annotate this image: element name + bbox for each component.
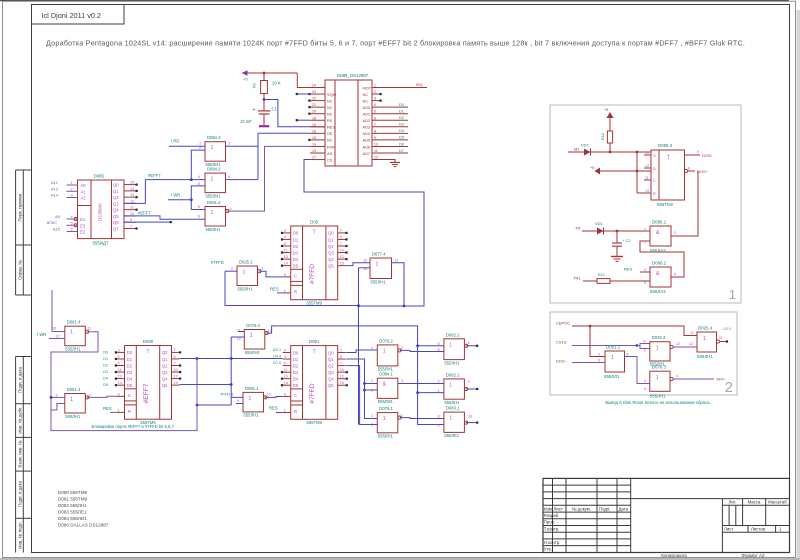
svg-text:#7FFD: #7FFD (309, 383, 316, 403)
svg-text:D091: D091 (309, 339, 320, 344)
svg-text:Q0: Q0 (328, 231, 334, 236)
svg-text:D084.2: D084.2 (207, 167, 221, 172)
svg-text:10: 10 (174, 368, 178, 372)
svg-text:A2: A2 (81, 196, 87, 201)
svg-text:2: 2 (199, 146, 201, 150)
svg-text:21: 21 (312, 103, 316, 107)
svg-text:1: 1 (371, 414, 373, 418)
svg-text:4: 4 (598, 353, 600, 357)
svg-text:D081.1: D081.1 (245, 386, 259, 391)
svg-text:6: 6 (644, 387, 646, 391)
svg-text:D076.4: D076.4 (246, 323, 260, 328)
svg-text:1: 1 (729, 287, 736, 302)
svg-text:A0: A0 (81, 183, 87, 188)
svg-text:11: 11 (130, 206, 134, 210)
svg-text:D1: D1 (293, 237, 299, 242)
svg-text:3: 3 (228, 142, 230, 146)
svg-text:D5: D5 (127, 383, 133, 388)
svg-text:1: 1 (371, 346, 373, 350)
svg-text:14: 14 (130, 187, 134, 191)
svg-text:/ RD: / RD (171, 139, 179, 144)
svg-text:NC: NC (327, 112, 333, 117)
svg-text:23: 23 (312, 90, 316, 94)
svg-text:AS: AS (327, 151, 333, 156)
svg-text:1: 1 (449, 416, 452, 422)
svg-text:AD6: AD6 (363, 144, 371, 149)
svg-text:Q1: Q1 (162, 357, 168, 362)
svg-text:R: R (294, 289, 297, 294)
svg-text:24: 24 (312, 84, 316, 88)
svg-text:2: 2 (371, 423, 373, 427)
svg-text:S: S (653, 153, 656, 158)
svg-text:AD0: AD0 (363, 105, 371, 110)
svg-text:13: 13 (645, 189, 649, 193)
svg-text:1: 1 (243, 270, 246, 276)
svg-text:D1: D1 (103, 357, 108, 361)
svg-text:Q0: Q0 (113, 183, 119, 188)
svg-text:12: 12 (363, 259, 367, 263)
svg-text:NC: NC (327, 98, 333, 103)
svg-text:D081 555ТМ9: D081 555ТМ9 (58, 497, 88, 502)
svg-text:D081.2: D081.2 (207, 200, 221, 205)
svg-text:D082 555ЛН1: D082 555ЛН1 (58, 503, 87, 508)
svg-text:7: 7 (374, 123, 376, 127)
svg-text:6: 6 (438, 348, 440, 352)
svg-text:12: 12 (174, 374, 178, 378)
svg-text:D081.3: D081.3 (67, 387, 81, 392)
svg-text:Q3: Q3 (328, 370, 334, 375)
svg-text:10: 10 (267, 393, 271, 397)
svg-text:RES: RES (327, 125, 335, 130)
svg-text:555ЛЕ1: 555ЛЕ1 (444, 433, 460, 438)
svg-text:Q0: Q0 (328, 350, 334, 355)
svg-text:1: 1 (284, 409, 286, 413)
svg-text:Q7: Q7 (113, 226, 119, 231)
svg-text:9: 9 (284, 392, 286, 396)
svg-text:4: 4 (468, 341, 470, 345)
svg-text:Справ. №: Справ. № (18, 260, 23, 280)
svg-text:A15: A15 (53, 227, 61, 232)
svg-text:Q1: Q1 (113, 189, 119, 194)
svg-text:12: 12 (340, 375, 344, 379)
svg-text:Подп. и дата: Подп. и дата (18, 481, 23, 507)
svg-text:+ C2: + C2 (623, 239, 631, 243)
svg-text:3: 3 (118, 348, 120, 352)
svg-text:3: 3 (401, 379, 403, 383)
svg-text:1: 1 (374, 84, 376, 88)
svg-text:15: 15 (174, 381, 178, 385)
svg-text:1: 1 (376, 262, 379, 268)
svg-text:D3: D3 (103, 370, 108, 374)
svg-text:10 K: 10 K (272, 81, 281, 86)
svg-text:D0: D0 (399, 103, 404, 107)
svg-text:Разраб.: Разраб. (544, 513, 559, 518)
svg-text:C: C (128, 393, 131, 398)
svg-text:4: 4 (644, 268, 646, 272)
svg-text:10 mF: 10 mF (240, 119, 252, 124)
svg-text:10: 10 (340, 248, 344, 252)
svg-text:1: 1 (211, 145, 214, 151)
svg-text:1: 1 (284, 289, 286, 293)
svg-text:1: 1 (656, 375, 659, 381)
svg-text:D4: D4 (293, 377, 299, 382)
svg-text:D2: D2 (293, 363, 299, 368)
svg-text:555ЛН1: 555ЛН1 (444, 400, 460, 405)
svg-text:D7: D7 (399, 149, 404, 153)
svg-text:6: 6 (284, 362, 286, 366)
svg-text:D1: D1 (399, 110, 404, 114)
svg-text:4: 4 (230, 207, 232, 211)
svg-text:D080 555ТМ9: D080 555ТМ9 (58, 490, 88, 495)
svg-text:OE: OE (327, 131, 333, 136)
svg-text:555ЛН1: 555ЛН1 (238, 286, 254, 291)
svg-text:Лист: Лист (724, 526, 733, 531)
svg-text:Q2: Q2 (328, 244, 334, 249)
svg-text:D2: D2 (103, 364, 108, 368)
svg-text:Взам. инв. №: Взам. инв. № (18, 440, 23, 467)
svg-text:5: 5 (374, 110, 376, 114)
svg-text:555ЛН1: 555ЛН1 (444, 360, 460, 365)
svg-text:D086.2: D086.2 (652, 261, 667, 266)
svg-text:10: 10 (130, 212, 134, 216)
svg-text:RES: RES (269, 406, 278, 411)
svg-text:9: 9 (237, 399, 239, 403)
svg-text:2: 2 (340, 348, 342, 352)
svg-text:NC: NC (327, 105, 333, 110)
svg-text:Доработка Pentagona 1024SL v14: Доработка Pentagona 1024SL v14: расширен… (46, 39, 745, 48)
svg-text:555ТМ9: 555ТМ9 (307, 301, 323, 306)
svg-text:Лит.: Лит. (729, 499, 737, 504)
svg-text:MOT: MOT (363, 85, 372, 90)
svg-text:D3: D3 (127, 370, 133, 375)
svg-text:555ТМ9: 555ТМ9 (307, 420, 323, 425)
svg-text:12: 12 (237, 337, 241, 341)
svg-text:#EFF7: #EFF7 (148, 173, 161, 178)
svg-text:5: 5 (598, 359, 600, 363)
svg-text:10: 10 (340, 368, 344, 372)
svg-text:AD1: AD1 (363, 112, 371, 117)
svg-text:/ WR: / WR (171, 192, 180, 197)
svg-text:Вывод 6 Gluk Reset Service не: Вывод 6 Gluk Reset Service не использова… (605, 400, 710, 405)
svg-text:2: 2 (725, 379, 733, 396)
svg-text:5: 5 (71, 221, 73, 225)
svg-text:R: R (653, 191, 656, 196)
svg-text:Q5: Q5 (162, 383, 168, 388)
svg-text:6: 6 (374, 116, 376, 120)
svg-text:DC/BMX: DC/BMX (97, 203, 102, 221)
svg-text:10: 10 (374, 142, 378, 146)
svg-text:3: 3 (674, 231, 676, 235)
svg-text:C: C (294, 393, 297, 398)
svg-text:1: 1 (449, 342, 452, 348)
svg-text:A13: A13 (51, 187, 59, 192)
svg-text:Q0: Q0 (162, 350, 168, 355)
svg-text:555ЛИ1: 555ЛИ1 (378, 399, 394, 404)
svg-text:C: C (653, 178, 656, 183)
svg-text:D086.1: D086.1 (652, 220, 667, 225)
svg-text:555ЛН1: 555ЛН1 (206, 227, 222, 232)
svg-text:10: 10 (52, 326, 56, 330)
svg-text:D086_DS12887: D086_DS12887 (337, 73, 369, 78)
svg-text:OFF~: OFF~ (716, 377, 727, 382)
svg-text:Q5: Q5 (113, 214, 119, 219)
svg-text:+5: +5 (590, 166, 594, 170)
svg-text:11: 11 (395, 259, 399, 263)
svg-text:D5: D5 (293, 383, 299, 388)
svg-text:12: 12 (130, 199, 134, 203)
svg-text:D025.1: D025.1 (239, 260, 253, 265)
svg-text:13: 13 (312, 149, 316, 153)
svg-text:7: 7 (340, 361, 342, 365)
svg-text:RES: RES (103, 406, 112, 411)
svg-text:C1: C1 (272, 107, 278, 112)
svg-text:Q4: Q4 (328, 377, 334, 382)
svg-text:5: 5 (198, 205, 200, 209)
svg-text:1: 1 (383, 348, 386, 354)
svg-text:Mx: Mx (574, 147, 579, 152)
svg-text:4: 4 (198, 175, 200, 179)
svg-text:3: 3 (71, 194, 73, 198)
svg-text:Инв. № подл.: Инв. № подл. (18, 521, 23, 548)
svg-text:RS: RS (327, 118, 333, 123)
svg-text:Q3: Q3 (328, 250, 334, 255)
svg-text:555ЛА3: 555ЛА3 (650, 289, 666, 294)
svg-text:14: 14 (284, 381, 288, 385)
svg-text:AD7: AD7 (363, 151, 371, 156)
svg-text:T: T (667, 155, 670, 161)
svg-text:Копировала: Копировала (661, 553, 687, 558)
svg-text:Блокировка порта #EFF7 и #7FFD: Блокировка порта #EFF7 и #7FFD bit 5,6,7 (92, 424, 175, 429)
svg-text:Q4: Q4 (162, 376, 168, 381)
svg-text:Дата: Дата (619, 506, 629, 511)
svg-text:D4: D4 (399, 129, 404, 133)
svg-text:№ докум.: № докум. (572, 506, 591, 511)
svg-text:8: 8 (644, 340, 646, 344)
svg-text:D3: D3 (399, 123, 404, 127)
svg-text:E1: E1 (80, 217, 86, 222)
svg-text:11: 11 (645, 176, 649, 180)
svg-text:15: 15 (340, 381, 344, 385)
svg-text:AD5: AD5 (363, 138, 371, 143)
svg-text:TR: TR (575, 226, 580, 231)
svg-text:17: 17 (312, 156, 316, 160)
svg-text:D080: D080 (143, 339, 154, 344)
svg-text:Подп.: Подп. (599, 506, 610, 511)
svg-text:Лист: Лист (554, 506, 563, 511)
svg-text:11: 11 (118, 368, 122, 372)
svg-text:#7FFD: #7FFD (211, 260, 224, 265)
svg-text:2: 2 (174, 348, 176, 352)
svg-text:D6: D6 (399, 142, 404, 146)
svg-text:D2: D2 (127, 363, 133, 368)
svg-text:5: 5 (340, 235, 342, 239)
svg-text:5: 5 (438, 342, 440, 346)
svg-text:3: 3 (284, 229, 286, 233)
svg-text:CS: CS (327, 157, 333, 162)
svg-text:D025.4: D025.4 (698, 326, 713, 331)
svg-text:4: 4 (118, 355, 120, 359)
svg-text:VD2: VD2 (581, 143, 590, 148)
svg-text:D0: D0 (293, 350, 299, 355)
svg-text:4: 4 (284, 235, 286, 239)
svg-text:R10: R10 (601, 133, 605, 140)
svg-text:D: D (653, 166, 656, 171)
svg-text:555ЛН1: 555ЛН1 (697, 354, 713, 359)
svg-text:555ЛН1: 555ЛН1 (244, 413, 260, 418)
svg-text:6: 6 (71, 228, 73, 232)
svg-text:14: 14 (284, 262, 288, 266)
svg-text:US.0: US.0 (723, 327, 731, 331)
svg-text:Подп. и дата: Подп. и дата (18, 367, 23, 393)
svg-text:#EFF7: #EFF7 (138, 211, 151, 216)
svg-text:12: 12 (374, 156, 378, 160)
svg-text:7: 7 (130, 224, 132, 228)
svg-text:6: 6 (228, 175, 230, 179)
svg-text:Q6: Q6 (113, 220, 119, 225)
svg-text:1: 1 (656, 346, 659, 352)
svg-text:11: 11 (88, 326, 92, 330)
svg-text:Масштаб: Масштаб (768, 499, 787, 504)
svg-text:D082.2: D082.2 (446, 332, 460, 337)
svg-text:R: R (294, 409, 297, 414)
svg-text:Изм.: Изм. (544, 506, 553, 511)
svg-text:D0: D0 (293, 231, 299, 236)
svg-text:TR1: TR1 (573, 276, 581, 281)
svg-text:2: 2 (71, 187, 73, 191)
svg-text:13: 13 (268, 329, 272, 333)
svg-text:5: 5 (340, 355, 342, 359)
svg-text:DOS~: DOS~ (556, 359, 568, 364)
svg-text:E2: E2 (80, 230, 86, 235)
svg-text:D5: D5 (399, 136, 404, 140)
svg-text:9: 9 (118, 392, 120, 396)
svg-text:10: 10 (468, 414, 472, 418)
svg-text:A12: A12 (51, 180, 59, 185)
svg-text:СБРОС: СБРОС (556, 321, 570, 326)
svg-text:Q5: Q5 (328, 383, 334, 388)
svg-text:D5: D5 (103, 383, 108, 387)
svg-text:13: 13 (284, 255, 288, 259)
svg-text:Перв. примен.: Перв. примен. (18, 192, 23, 221)
svg-text:D055.2: D055.2 (658, 143, 673, 148)
svg-text:R/W: R/W (327, 144, 335, 149)
svg-text:AD3: AD3 (363, 125, 371, 130)
svg-text:555ТМ2: 555ТМ2 (657, 202, 674, 207)
svg-text:NC: NC (363, 98, 369, 103)
svg-text:Инв. № дубл.: Инв. № дубл. (18, 406, 23, 433)
svg-text:14: 14 (118, 381, 122, 385)
svg-text:555ЛЛ1: 555ЛЛ1 (604, 374, 620, 379)
svg-text:9: 9 (284, 273, 286, 277)
svg-text:Q2: Q2 (113, 195, 119, 200)
svg-text:555ЛН1: 555ЛН1 (245, 350, 261, 355)
svg-text:2: 2 (374, 90, 376, 94)
svg-text:555ЛН1: 555ЛН1 (65, 347, 81, 352)
svg-text:1: 1 (262, 267, 264, 271)
svg-text:15: 15 (130, 181, 134, 185)
svg-text:9: 9 (644, 349, 646, 353)
svg-text:5: 5 (644, 281, 646, 285)
svg-text:1: 1 (70, 397, 73, 403)
svg-text:9: 9 (697, 150, 699, 154)
svg-text:D084.3: D084.3 (207, 135, 221, 140)
svg-text:Н.контр.: Н.контр. (544, 540, 561, 545)
svg-text:D085: D085 (94, 174, 105, 179)
svg-text:+: + (253, 108, 256, 114)
svg-text:D5: D5 (293, 263, 299, 268)
svg-text:T: T (313, 349, 316, 355)
svg-text:555ЛН1: 555ЛН1 (378, 434, 394, 439)
svg-text:D083.1: D083.1 (446, 406, 460, 411)
svg-text:1: 1 (70, 330, 73, 336)
svg-text:6: 6 (284, 242, 286, 246)
svg-text:555ЛН1: 555ЛН1 (650, 394, 666, 399)
svg-text:Пров.: Пров. (544, 520, 555, 525)
svg-text:20: 20 (312, 110, 316, 114)
svg-text:3: 3 (468, 380, 470, 384)
svg-text:Q3: Q3 (113, 201, 119, 206)
svg-text:Q4: Q4 (328, 257, 334, 262)
svg-text:D2: D2 (293, 244, 299, 249)
svg-text:19: 19 (312, 123, 316, 127)
svg-text:1: 1 (449, 382, 452, 388)
svg-text:8: 8 (438, 414, 440, 418)
svg-text:555ИД7: 555ИД7 (93, 241, 109, 246)
svg-text:A14: A14 (51, 193, 59, 198)
svg-text:5: 5 (644, 380, 646, 384)
svg-text:AD2: AD2 (363, 118, 371, 123)
svg-text:8: 8 (688, 167, 690, 171)
svg-text:9: 9 (438, 423, 440, 427)
svg-text:1: 1 (383, 416, 386, 422)
svg-text:18: 18 (312, 116, 316, 120)
svg-text:Q1: Q1 (328, 357, 334, 362)
svg-text:3: 3 (284, 349, 286, 353)
svg-text:11: 11 (374, 149, 378, 153)
svg-text:1: 1 (249, 396, 252, 402)
svg-text:1: 1 (703, 336, 706, 342)
svg-text:1: 1 (211, 210, 214, 216)
svg-text:12: 12 (56, 335, 60, 339)
svg-text:13: 13 (130, 193, 134, 197)
svg-text:Масса: Масса (748, 499, 761, 504)
svg-text:D082.1: D082.1 (446, 372, 460, 377)
svg-text:D4: D4 (103, 377, 108, 381)
svg-text:1: 1 (199, 142, 201, 146)
svg-text:9: 9 (374, 136, 376, 140)
svg-text:11: 11 (690, 331, 694, 335)
svg-text:Формат А2: Формат А2 (741, 553, 765, 558)
svg-text:R: R (128, 409, 131, 414)
svg-text:#EFF7: #EFF7 (143, 383, 150, 403)
svg-text:D4 4: D4 4 (273, 355, 281, 359)
svg-text:Q2: Q2 (162, 363, 168, 368)
svg-text:16: 16 (312, 129, 316, 133)
svg-text:Q2: Q2 (328, 363, 334, 368)
svg-text:SQW: SQW (327, 92, 337, 97)
svg-text:7: 7 (340, 242, 342, 246)
svg-text:D084.1: D084.1 (379, 372, 393, 377)
svg-text:T: T (146, 349, 149, 355)
svg-text:13: 13 (284, 375, 288, 379)
svg-text:1: 1 (118, 408, 120, 412)
svg-text:D076.1: D076.1 (379, 406, 393, 411)
svg-text:22: 22 (312, 97, 316, 101)
svg-text:2: 2 (231, 267, 233, 271)
svg-text:Q4: Q4 (113, 208, 119, 213)
svg-text:2: 2 (371, 389, 373, 393)
svg-text:VD1: VD1 (595, 221, 604, 226)
